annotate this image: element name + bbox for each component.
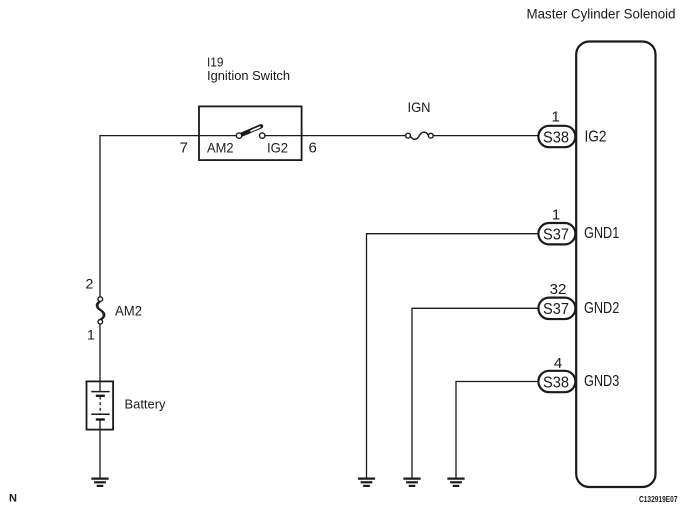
svg-text:AM2: AM2 — [207, 140, 234, 156]
ECU block: Master Cylinder Solenoid — [527, 6, 676, 488]
svg-text:GND3: GND3 — [584, 373, 619, 390]
wire: vertical drop from pin 7 node to fuse AM2 — [99, 135, 101, 297]
connector S37 pin 32 GND2 — [538, 281, 619, 319]
svg-text:IGN: IGN — [408, 99, 431, 115]
svg-text:1: 1 — [552, 108, 560, 125]
svg-text:7: 7 — [180, 139, 188, 156]
ground: GND2 — [403, 479, 420, 486]
ignition switch I19 — [180, 55, 317, 161]
svg-text:32: 32 — [550, 281, 567, 298]
ground: GND1 — [358, 479, 375, 486]
svg-text:1: 1 — [552, 207, 560, 224]
svg-text:1: 1 — [87, 327, 95, 343]
svg-text:AM2: AM2 — [115, 303, 142, 319]
svg-text:Ignition Switch: Ignition Switch — [207, 68, 290, 83]
wire: battery to ground — [99, 430, 101, 479]
svg-text:GND2: GND2 — [584, 300, 619, 317]
svg-text:S38: S38 — [543, 129, 569, 146]
svg-text:Battery: Battery — [125, 397, 166, 412]
fuse AM2 (vertical) — [86, 276, 143, 343]
svg-text:S38: S38 — [543, 374, 569, 391]
wire: ignition switch pin 6 to fuse IGN — [265, 135, 406, 137]
svg-text:IG2: IG2 — [585, 129, 607, 146]
svg-text:6: 6 — [309, 139, 317, 156]
svg-text:C132919E07: C132919E07 — [639, 494, 678, 504]
wire: fuse IGN to connector S38 IG2 — [433, 135, 537, 137]
switch lever — [242, 126, 262, 134]
svg-text:N: N — [9, 493, 17, 505]
wire: GND2 from S37 left then down to ground — [412, 308, 537, 478]
ground: battery — [91, 479, 108, 486]
battery — [87, 381, 166, 429]
svg-text:IG2: IG2 — [267, 140, 288, 156]
wire: battery feed horizontal to ignition switch pin 7 — [100, 135, 236, 137]
svg-text:S37: S37 — [543, 226, 569, 243]
switch contact pin 7 (AM2) — [236, 133, 241, 138]
connector S38 pin 1 IG2 — [538, 108, 606, 147]
connector S38 pin 4 GND3 — [538, 355, 619, 392]
svg-text:2: 2 — [86, 276, 94, 292]
wire: GND3 from S38 left then down to ground — [456, 382, 537, 478]
svg-text:Master Cylinder Solenoid: Master Cylinder Solenoid — [527, 6, 676, 22]
switch contact pin 6 (IG2) — [260, 133, 265, 138]
wire: fuse AM2 to battery — [99, 324, 101, 382]
svg-text:4: 4 — [554, 355, 562, 372]
connector S37 pin 1 GND1 — [538, 207, 619, 245]
wire: GND1 from S37 left then down to ground — [367, 234, 538, 478]
fuse IGN — [406, 99, 434, 139]
svg-text:GND1: GND1 — [584, 225, 619, 242]
ground: GND3 — [447, 479, 464, 486]
svg-text:S37: S37 — [543, 301, 569, 318]
